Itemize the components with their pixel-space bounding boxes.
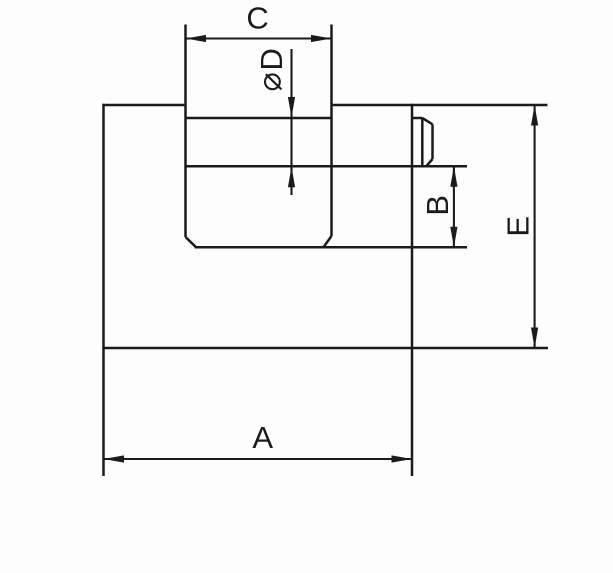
bolt tab top chamfer <box>422 118 432 124</box>
arrowhead C left <box>186 35 207 42</box>
svg-text:B: B <box>420 195 455 216</box>
svg-text:C: C <box>246 1 268 36</box>
arrowhead A right <box>392 455 413 462</box>
dimension C line <box>186 37 332 39</box>
bolt tab inner vertical edge <box>421 118 424 166</box>
bolt pin top line <box>186 117 332 120</box>
arrowhead B bottom <box>450 227 457 248</box>
bolt pin bottom line + tab bottom + B top extension <box>186 165 468 168</box>
bolt tab bottom chamfer <box>426 159 432 166</box>
bolt tab right edge <box>431 124 434 159</box>
arrowhead B top <box>450 166 457 187</box>
svg-text:E: E <box>500 216 535 237</box>
dimension A line <box>104 458 413 460</box>
body right edge (with A extension below) <box>411 104 414 476</box>
slot left wall (with C extension above) <box>184 25 187 238</box>
body top edge left segment <box>102 104 185 107</box>
arrowhead A left <box>104 455 125 462</box>
diameter symbol slash <box>266 74 282 89</box>
bolt tab top edge <box>412 117 422 120</box>
body top edge right segment + E top extension <box>332 104 548 107</box>
arrowhead C right <box>311 35 332 42</box>
slot bottom line + B bottom extension <box>195 246 467 249</box>
diameter symbol circle <box>265 74 280 89</box>
body bottom line + E bottom extension <box>102 347 548 350</box>
arrowhead D down (tip at pin top) <box>288 97 295 118</box>
dimension E line <box>534 105 536 348</box>
slot right bottom chamfer <box>324 236 332 247</box>
slot right wall (with C extension above) <box>330 25 333 237</box>
arrowhead D up (tip at pin bottom) <box>288 167 295 188</box>
slot left bottom chamfer <box>186 237 197 247</box>
dimension B line <box>453 166 455 247</box>
svg-text:A: A <box>252 420 273 455</box>
arrowhead E bottom <box>531 328 538 349</box>
body left edge (with A extension below) <box>102 104 105 476</box>
dimension D leader line <box>290 49 292 195</box>
svg-text:D: D <box>254 48 289 70</box>
arrowhead E top <box>531 105 538 126</box>
